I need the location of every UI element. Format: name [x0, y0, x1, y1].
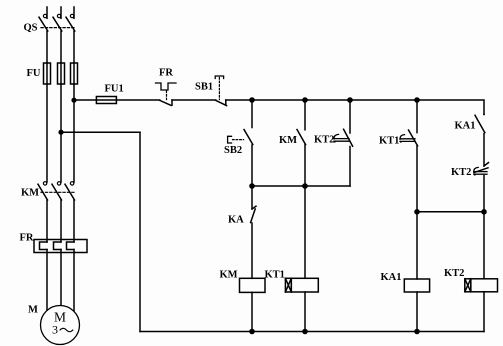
- switch QS pole 1: [39, 7, 48, 31]
- svg-text:KT1: KT1: [379, 136, 399, 147]
- svg-text:KT2: KT2: [314, 134, 334, 145]
- contact KA (NO): [251, 186, 256, 278]
- contactor KM main pole 1: [38, 182, 48, 200]
- svg-text:KA1: KA1: [381, 272, 402, 283]
- node H: [481, 209, 487, 215]
- SB2 actuator bracket: [228, 136, 232, 143]
- FR trip actuator: [156, 83, 177, 90]
- wire KT1 branch: [304, 186, 306, 278]
- contact KT1 delayed NC: [400, 100, 418, 212]
- node F: [302, 183, 308, 189]
- svg-text:3: 3: [52, 323, 58, 337]
- svg-text:KM: KM: [220, 270, 238, 281]
- wire L3 to FU1: [74, 99, 96, 101]
- FR heater element 3: [67, 242, 75, 250]
- FR actuator dotted link: [166, 91, 168, 100]
- svg-text:KT2: KT2: [444, 268, 464, 279]
- wire L3 KM to FR: [73, 200, 75, 242]
- wire KM coil to bottom rail: [251, 292, 253, 331]
- FR heater element 2: [54, 242, 62, 250]
- wire FR to SB1: [172, 99, 216, 101]
- wire L3 FR to motor: [73, 250, 75, 314]
- wire L3 FU to KM: [73, 84, 75, 182]
- thermal relay FR heater box: [34, 240, 87, 253]
- wire L2 FU to KM: [60, 84, 62, 182]
- contact KT2 delayed NC (top): [334, 100, 353, 186]
- wire node B to node C: [305, 99, 350, 101]
- QS mechanical linkage (dashed): [41, 27, 75, 29]
- contact KA1 (NO): [475, 114, 485, 166]
- wire L1 FU to KM: [46, 84, 48, 182]
- fuse FU1: [96, 97, 116, 104]
- pushbutton SB2 (NO): [244, 100, 253, 186]
- node L3 control tap: [71, 98, 76, 103]
- fuse FU pole 2: [58, 63, 65, 84]
- node L2 control return tap: [58, 130, 63, 135]
- svg-text:SB1: SB1: [195, 82, 213, 93]
- wire SB1 to node A: [226, 99, 252, 101]
- node K: [414, 329, 420, 335]
- svg-text:KA: KA: [228, 214, 244, 225]
- svg-text:KM: KM: [279, 135, 297, 146]
- coil KM: [240, 278, 266, 292]
- svg-text:M: M: [28, 305, 38, 316]
- FR NC contact: [160, 100, 172, 105]
- coil KA1: [404, 279, 429, 292]
- motor 3-phase mark: [52, 323, 73, 337]
- SB2 actuator dotted link: [233, 139, 244, 141]
- contact KM auxiliary (NO): [297, 100, 306, 186]
- wire KA1 coil to bottom rail: [416, 292, 418, 332]
- wire L2 QS to FU: [60, 31, 62, 63]
- wire node A to node B: [252, 99, 305, 101]
- wire node D to right corner: [417, 100, 484, 114]
- node C: [347, 97, 353, 103]
- contactor KM main pole 2: [52, 182, 62, 200]
- svg-text:KT2: KT2: [451, 167, 471, 178]
- contact KT2 delayed NC (right): [474, 163, 489, 212]
- svg-text:FR: FR: [20, 233, 34, 244]
- SB1 actuator: [215, 76, 223, 79]
- node G: [414, 209, 420, 215]
- svg-text:KA1: KA1: [455, 121, 476, 132]
- coil KT1: [285, 278, 318, 292]
- wire bottom rail: [140, 331, 484, 333]
- wire node C to node D: [350, 99, 417, 101]
- wire rail3: [417, 211, 484, 213]
- node J: [302, 329, 308, 335]
- wire L2 FR to motor: [60, 250, 62, 308]
- svg-text:QS: QS: [24, 23, 38, 34]
- switch QS pole 3: [66, 7, 75, 31]
- svg-text:KT1: KT1: [265, 270, 285, 281]
- svg-text:FU1: FU1: [105, 84, 124, 95]
- fuse FU pole 1: [44, 63, 51, 84]
- wire L3 QS to FU: [73, 31, 75, 63]
- contactor KM main pole 3: [65, 182, 75, 200]
- wire L1 QS to FU: [46, 31, 48, 63]
- node D: [414, 97, 420, 103]
- node I: [249, 329, 255, 335]
- node A: [249, 97, 255, 103]
- wire KT2 coil to bottom rail: [483, 292, 485, 332]
- motor M circle: [41, 306, 80, 345]
- wire rail2: [252, 185, 350, 187]
- coil KT2: [465, 279, 498, 292]
- wire L2 KM to FR: [60, 200, 62, 242]
- node E: [249, 183, 255, 189]
- wire L1 KM to FR: [46, 200, 48, 242]
- wire left return vertical: [139, 132, 141, 331]
- svg-text:KM: KM: [21, 188, 39, 199]
- svg-text:FR: FR: [159, 68, 173, 79]
- wire FU1 to FR contact: [116, 99, 159, 101]
- svg-text:FU: FU: [27, 68, 41, 79]
- SB1 actuator dotted link: [218, 78, 220, 100]
- switch QS pole 2: [53, 7, 62, 31]
- wire L1 FR to motor: [46, 250, 48, 313]
- wire KA1 coil branch: [416, 212, 418, 279]
- fuse FU pole 3: [71, 63, 78, 84]
- wire KT1 coil to bottom rail: [304, 292, 306, 332]
- node B: [302, 97, 308, 103]
- pushbutton SB1 (NC): [216, 100, 227, 106]
- KM main linkage (dashed): [41, 191, 75, 193]
- FR heater element 1: [40, 242, 48, 250]
- svg-text:SB2: SB2: [224, 145, 242, 156]
- wire KT2 coil branch: [483, 212, 485, 279]
- wire L2 return horizontal: [61, 131, 140, 133]
